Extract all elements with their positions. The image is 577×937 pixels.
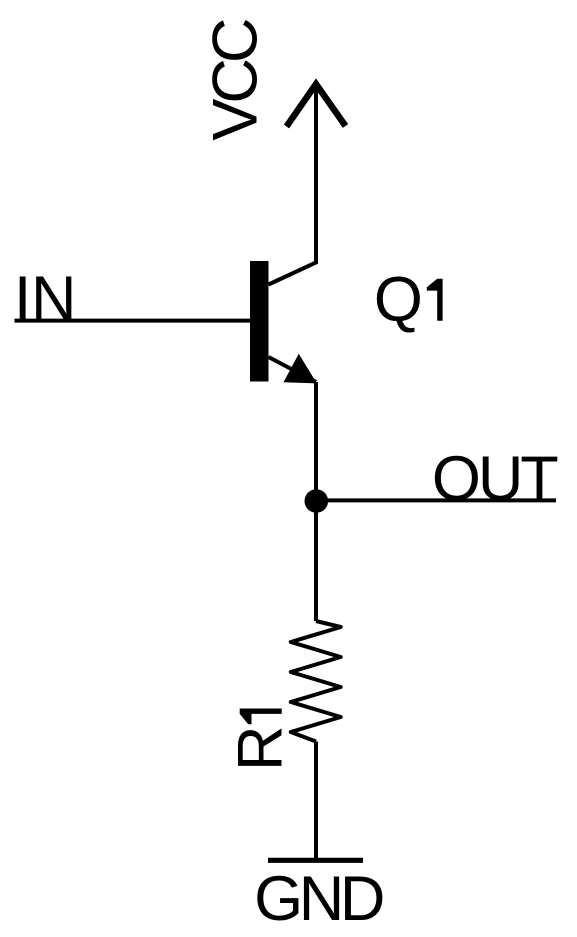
svg-text:GND: GND xyxy=(254,864,385,934)
svg-text:VCC: VCC xyxy=(201,18,271,141)
ground bar xyxy=(268,858,363,863)
wire IN to base xyxy=(15,319,251,323)
resistor R1 zigzag xyxy=(291,621,341,742)
svg-text:R: R xyxy=(226,726,296,772)
transistor Q1 emitter arrowhead xyxy=(284,355,316,383)
wire node to OUT xyxy=(316,498,556,502)
wire node to resistor xyxy=(314,501,318,621)
svg-text:OUT: OUT xyxy=(432,444,559,514)
transistor Q1 emitter line xyxy=(269,357,317,382)
power symbol VCC arrow xyxy=(287,84,346,127)
wire emitter to node xyxy=(314,382,318,501)
transistor Q1 label digit 1 xyxy=(427,279,443,321)
wire collector to VCC xyxy=(269,81,317,285)
wire resistor to ground xyxy=(314,742,318,859)
node junction dot xyxy=(305,489,329,513)
transistor Q1 base bar xyxy=(250,261,269,382)
resistor R1 label digit 1 xyxy=(240,709,282,725)
svg-text:Q: Q xyxy=(374,265,423,335)
svg-text:IN: IN xyxy=(14,264,77,334)
